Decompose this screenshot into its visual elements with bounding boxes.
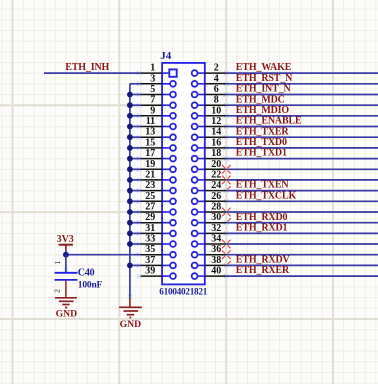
wire from pin 38	[226, 264, 378, 266]
svg-text:18: 18	[211, 148, 221, 159]
connection marker pin 35	[137, 252, 142, 257]
no-ERC marker pin 28	[222, 208, 230, 216]
svg-text:12: 12	[211, 116, 221, 127]
pin 34	[192, 234, 227, 247]
svg-text:ETH_MDIO: ETH_MDIO	[236, 105, 290, 116]
power port 3V3	[57, 234, 74, 250]
connection marker pin 38	[224, 263, 229, 268]
svg-text:32: 32	[211, 223, 221, 234]
wire bus to pin 33	[130, 243, 141, 245]
pin 9	[141, 105, 176, 118]
svg-text:2: 2	[214, 63, 219, 74]
wire from pin 12	[226, 126, 378, 128]
svg-text:1: 1	[53, 260, 62, 264]
svg-text:ETH_RXD0: ETH_RXD0	[236, 212, 288, 223]
svg-text:ETH_WAKE: ETH_WAKE	[236, 62, 292, 73]
pin 16	[192, 137, 227, 150]
ground GND (left)	[55, 298, 77, 320]
junction pin 7	[127, 102, 133, 108]
svg-text:37: 37	[145, 255, 155, 266]
pin 31	[141, 223, 176, 236]
wire from pin 28	[226, 211, 378, 213]
no-ERC marker pin 34	[222, 240, 230, 248]
connection marker pin 21	[137, 178, 142, 183]
wire from pin 36	[226, 254, 378, 256]
no-ERC marker pin 38	[228, 261, 231, 264]
connection marker pin 17	[137, 156, 142, 161]
svg-text:26: 26	[211, 191, 221, 202]
junction pin 33	[127, 241, 133, 247]
connection marker pin 15	[137, 146, 142, 151]
svg-text:1: 1	[150, 63, 155, 74]
connection marker pin 37	[137, 263, 142, 268]
svg-text:36: 36	[211, 244, 221, 255]
pin 39	[141, 266, 176, 279]
svg-text:ETH_MDC: ETH_MDC	[236, 94, 285, 105]
no-ERC marker pin 36	[222, 251, 230, 259]
wire from pin 26	[226, 200, 378, 202]
svg-text:ETH_INT_N: ETH_INT_N	[236, 84, 292, 95]
svg-text:ETH_INH: ETH_INH	[65, 62, 109, 73]
connection marker pin 7	[137, 103, 142, 108]
svg-text:J4: J4	[160, 50, 172, 62]
svg-text:ETH_RST_N: ETH_RST_N	[236, 73, 293, 84]
pin 28	[192, 202, 227, 215]
wire bus to pin 3	[130, 83, 141, 85]
wire bus to pin 21	[130, 179, 141, 181]
connection marker pin 3	[137, 82, 142, 87]
svg-text:5: 5	[150, 84, 155, 95]
pin 1	[141, 63, 177, 77]
connection marker pin 34	[224, 242, 229, 247]
connection marker pin 6	[224, 92, 229, 97]
wire bus to pin 7	[130, 104, 141, 106]
svg-text:61004021821: 61004021821	[159, 287, 207, 297]
pin 11	[141, 116, 176, 129]
svg-text:29: 29	[145, 212, 155, 223]
ground GND (bus bottom)	[119, 297, 142, 330]
svg-text:15: 15	[145, 137, 155, 148]
connection marker pin 18	[224, 156, 229, 161]
svg-text:17: 17	[145, 148, 155, 159]
pin 24	[192, 180, 227, 193]
wire from pin 6	[226, 94, 378, 96]
svg-text:13: 13	[145, 127, 155, 138]
wire C40 to GND	[65, 281, 67, 298]
svg-text:ETH_RXER: ETH_RXER	[236, 265, 290, 276]
wire from pin 34	[226, 243, 378, 245]
svg-text:6: 6	[214, 84, 219, 95]
connection marker pin 16	[224, 146, 229, 151]
svg-text:21: 21	[145, 169, 155, 180]
svg-text:28: 28	[211, 202, 221, 213]
connection marker pin 13	[137, 135, 142, 140]
pin 36	[192, 244, 227, 257]
wire from pin 2	[226, 72, 378, 74]
connection marker pin 24	[224, 188, 229, 193]
wire bus to pin 37	[130, 264, 141, 266]
wire 3V3 stem	[65, 250, 67, 255]
svg-text:ETH_TXCLK: ETH_TXCLK	[236, 190, 297, 201]
pin 33	[141, 234, 176, 247]
svg-text:31: 31	[145, 223, 155, 234]
svg-text:33: 33	[145, 234, 155, 245]
junction pin 19	[127, 166, 133, 172]
no-ERC marker pin 30	[228, 219, 231, 222]
connection marker pin 14	[224, 135, 229, 140]
pin 26	[192, 191, 227, 204]
wire bus to pin 19	[130, 168, 141, 170]
wire from pin 40	[226, 275, 378, 277]
wire 3V3 to C40	[65, 255, 67, 272]
svg-text:ETH_TXEN: ETH_TXEN	[236, 180, 290, 191]
svg-text:ETH_TXD1: ETH_TXD1	[236, 148, 287, 159]
svg-text:3: 3	[150, 73, 155, 84]
pin 5	[141, 84, 176, 97]
svg-text:100nF: 100nF	[78, 280, 103, 290]
connection marker pin 8	[224, 103, 229, 108]
connection marker pin 10	[224, 114, 229, 119]
svg-text:25: 25	[145, 191, 155, 202]
pin 29	[141, 212, 176, 225]
pin 15	[141, 137, 176, 150]
junction pin 23	[127, 188, 133, 194]
pin 18	[192, 148, 227, 161]
wire bus to pin 9	[130, 115, 141, 117]
svg-text:4: 4	[214, 73, 219, 84]
svg-text:GND: GND	[120, 319, 142, 330]
wire bus to pin 11	[130, 126, 141, 128]
no-ERC marker pin 22	[222, 176, 230, 184]
connection marker C40 top	[64, 268, 69, 273]
svg-text:30: 30	[211, 212, 221, 223]
no-ERC marker pin 20	[222, 165, 230, 173]
connection marker pin 23	[137, 188, 142, 193]
pin 6	[192, 84, 227, 97]
connection marker pin 25	[137, 199, 142, 204]
svg-text:C40: C40	[78, 268, 95, 279]
wire from pin 18	[226, 158, 378, 160]
svg-text:23: 23	[145, 180, 155, 191]
junction pin 13	[127, 134, 133, 140]
no-ERC marker pin 24	[228, 186, 231, 189]
svg-text:ETH_RXDV: ETH_RXDV	[236, 255, 291, 266]
junction pin 17	[127, 156, 133, 162]
wire from pin 24	[226, 190, 378, 192]
svg-text:14: 14	[211, 127, 221, 138]
pin 3	[141, 73, 176, 86]
wire from pin 22	[226, 179, 378, 181]
svg-text:3V3: 3V3	[57, 234, 74, 245]
connector J4 body	[162, 63, 205, 285]
wire from pin 14	[226, 136, 378, 138]
connection marker pin 40	[224, 274, 229, 279]
svg-text:ETH_TXD0: ETH_TXD0	[236, 137, 287, 148]
junction pin 27	[127, 209, 133, 215]
pin 25	[141, 191, 176, 204]
connection marker pin 19	[137, 167, 142, 172]
junction pin 9	[127, 113, 133, 119]
junction pin 29	[127, 220, 133, 226]
connection marker pin 9	[137, 114, 142, 119]
svg-text:8: 8	[214, 95, 219, 106]
connection marker pin 26	[224, 199, 229, 204]
pin 7	[141, 95, 176, 108]
junction pin 5	[127, 92, 133, 98]
connection marker pin 29	[137, 220, 142, 225]
junction pin 37	[127, 263, 133, 269]
connection marker pin 33	[137, 242, 142, 247]
connection marker pin 30	[224, 220, 229, 225]
connection marker pin 31	[137, 231, 142, 236]
connection marker pin 2	[224, 71, 229, 76]
pin 10	[192, 105, 227, 118]
connection marker pin 11	[137, 124, 142, 129]
pin 8	[192, 95, 227, 108]
connection marker bus bottom	[128, 294, 133, 299]
pin 32	[192, 223, 227, 236]
wire from pin 20	[226, 168, 378, 170]
svg-text:ETH_RXD1: ETH_RXD1	[236, 223, 288, 234]
junction 3V3 node	[63, 252, 69, 258]
pin 38	[192, 255, 227, 268]
junction pin 25	[127, 198, 133, 204]
pin 21	[141, 169, 176, 182]
svg-text:38: 38	[211, 255, 221, 266]
wire from pin 32	[226, 232, 378, 234]
pin 27	[141, 202, 176, 215]
pin 17	[141, 148, 176, 161]
wire bus to pin 15	[130, 147, 141, 149]
svg-text:20: 20	[211, 159, 221, 170]
wire bus to pin 23	[130, 190, 141, 192]
wire from pin 8	[226, 104, 378, 106]
connection marker pin 39	[137, 274, 142, 279]
pin 2	[192, 63, 227, 76]
pin 19	[141, 159, 176, 172]
svg-text:2: 2	[53, 289, 62, 293]
junction pin 21	[127, 177, 133, 183]
wire bus to pin 13	[130, 136, 141, 138]
svg-text:35: 35	[145, 244, 155, 255]
pin 20	[192, 159, 227, 172]
wire ETH_INH to pin 1	[44, 72, 141, 74]
pin 37	[141, 255, 176, 268]
pin 40	[192, 266, 227, 279]
wire bus to pin 27	[130, 211, 141, 213]
connection marker pin 4	[224, 82, 229, 87]
svg-text:10: 10	[211, 105, 221, 116]
wire from pin 30	[226, 222, 378, 224]
capacitor C40	[53, 260, 78, 293]
connection marker pin 5	[137, 92, 142, 97]
GND bus wire (left vertical)	[129, 84, 131, 298]
pin 30	[192, 212, 227, 225]
junction pin 31	[127, 231, 133, 237]
connection marker pin 12	[224, 124, 229, 129]
wire bus to pin 31	[130, 232, 141, 234]
junction pin 15	[127, 145, 133, 151]
svg-text:9: 9	[150, 105, 155, 116]
svg-text:19: 19	[145, 159, 155, 170]
svg-text:39: 39	[145, 266, 155, 277]
connection marker pin 20	[224, 167, 229, 172]
wire 3V3 to pin 35	[66, 254, 141, 256]
connection marker pin 27	[137, 210, 142, 215]
pin 12	[192, 116, 227, 129]
pin 22	[192, 169, 227, 182]
junction pin 11	[127, 124, 133, 130]
svg-text:16: 16	[211, 137, 221, 148]
pin 23	[141, 180, 176, 193]
pin 4	[192, 73, 227, 86]
pin 35	[141, 244, 176, 257]
wire bus to pin 5	[130, 94, 141, 96]
svg-text:34: 34	[211, 234, 221, 245]
connection marker pin 32	[224, 231, 229, 236]
svg-text:ETH_TXER: ETH_TXER	[236, 126, 290, 137]
svg-text:24: 24	[211, 180, 221, 191]
wire from pin 10	[226, 115, 378, 117]
wire bus to pin 29	[130, 222, 141, 224]
wire from pin 4	[226, 83, 378, 85]
wire from pin 16	[226, 147, 378, 149]
pin 14	[192, 127, 227, 140]
connection marker pin 22	[224, 178, 229, 183]
pin 13	[141, 127, 176, 140]
svg-text:GND: GND	[56, 309, 78, 320]
svg-text:7: 7	[150, 95, 155, 106]
svg-text:11: 11	[146, 116, 155, 127]
svg-text:27: 27	[145, 202, 155, 213]
connection marker pin 28	[224, 210, 229, 215]
connection marker pin 36	[224, 252, 229, 257]
svg-text:22: 22	[211, 169, 221, 180]
svg-text:ETH_ENABLE: ETH_ENABLE	[236, 116, 302, 127]
connection marker pin 1	[137, 71, 142, 76]
wire bus to pin 17	[130, 158, 141, 160]
wire bus to pin 25	[130, 200, 141, 202]
svg-text:40: 40	[211, 266, 221, 277]
